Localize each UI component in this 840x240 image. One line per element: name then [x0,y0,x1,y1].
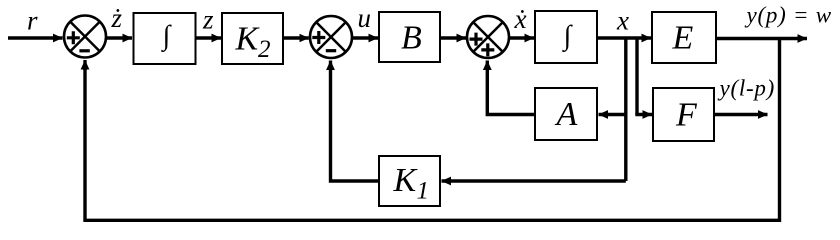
block integrator1 [134,13,196,64]
wire S2 to B [352,36,378,39]
svg-text:1: 1 [417,178,430,205]
svg-text:ż: ż [111,3,123,33]
summer S2 [310,16,352,58]
wire integrator2 to E with node x [597,36,651,39]
svg-text:E: E [672,20,694,57]
wire K2 to summer S2 [283,36,309,39]
wire input r arrow [8,36,63,39]
block F [653,88,714,141]
svg-text:F: F [675,96,698,133]
svg-text:z: z [202,5,214,35]
block B [379,12,440,62]
svg-text:K: K [393,162,419,199]
summer S1 [64,16,106,58]
wire S3 to integrator2 [509,36,534,39]
block K2 [222,13,283,64]
svg-text:B: B [401,20,422,57]
wire drop1 into K1 [442,179,626,182]
svg-text:K: K [235,21,261,58]
svg-text:x: x [616,6,629,36]
block integrator2 [535,11,597,63]
block A [535,88,597,140]
svg-text:2: 2 [258,36,271,63]
block K1 [379,156,440,206]
svg-text:ẋ: ẋ [514,4,527,34]
summer S3 [467,16,509,58]
wire outer feedback loop [85,39,780,221]
svg-text:y(p) = w: y(p) = w [745,3,832,28]
svg-text:A: A [555,96,578,133]
wire K1 output to S2 [331,66,380,181]
svg-text:u: u [358,3,372,33]
svg-text:y(l-p): y(l-p) [718,76,776,101]
wire F output y(l-p) [714,113,768,116]
wire drop2 from node x into F [635,38,638,115]
wire junction drop1 from node x down [624,38,627,181]
wire E to output y(p)=w [716,37,807,40]
wire A output to S3 [487,66,535,115]
wire B to summer S3 [440,36,466,39]
wire S1 to integrator1 [106,36,132,39]
wire tee from drop1 into A [599,113,626,116]
svg-text:r: r [27,6,38,36]
block E [652,12,716,63]
wire integrator1 to K2 [196,36,222,39]
